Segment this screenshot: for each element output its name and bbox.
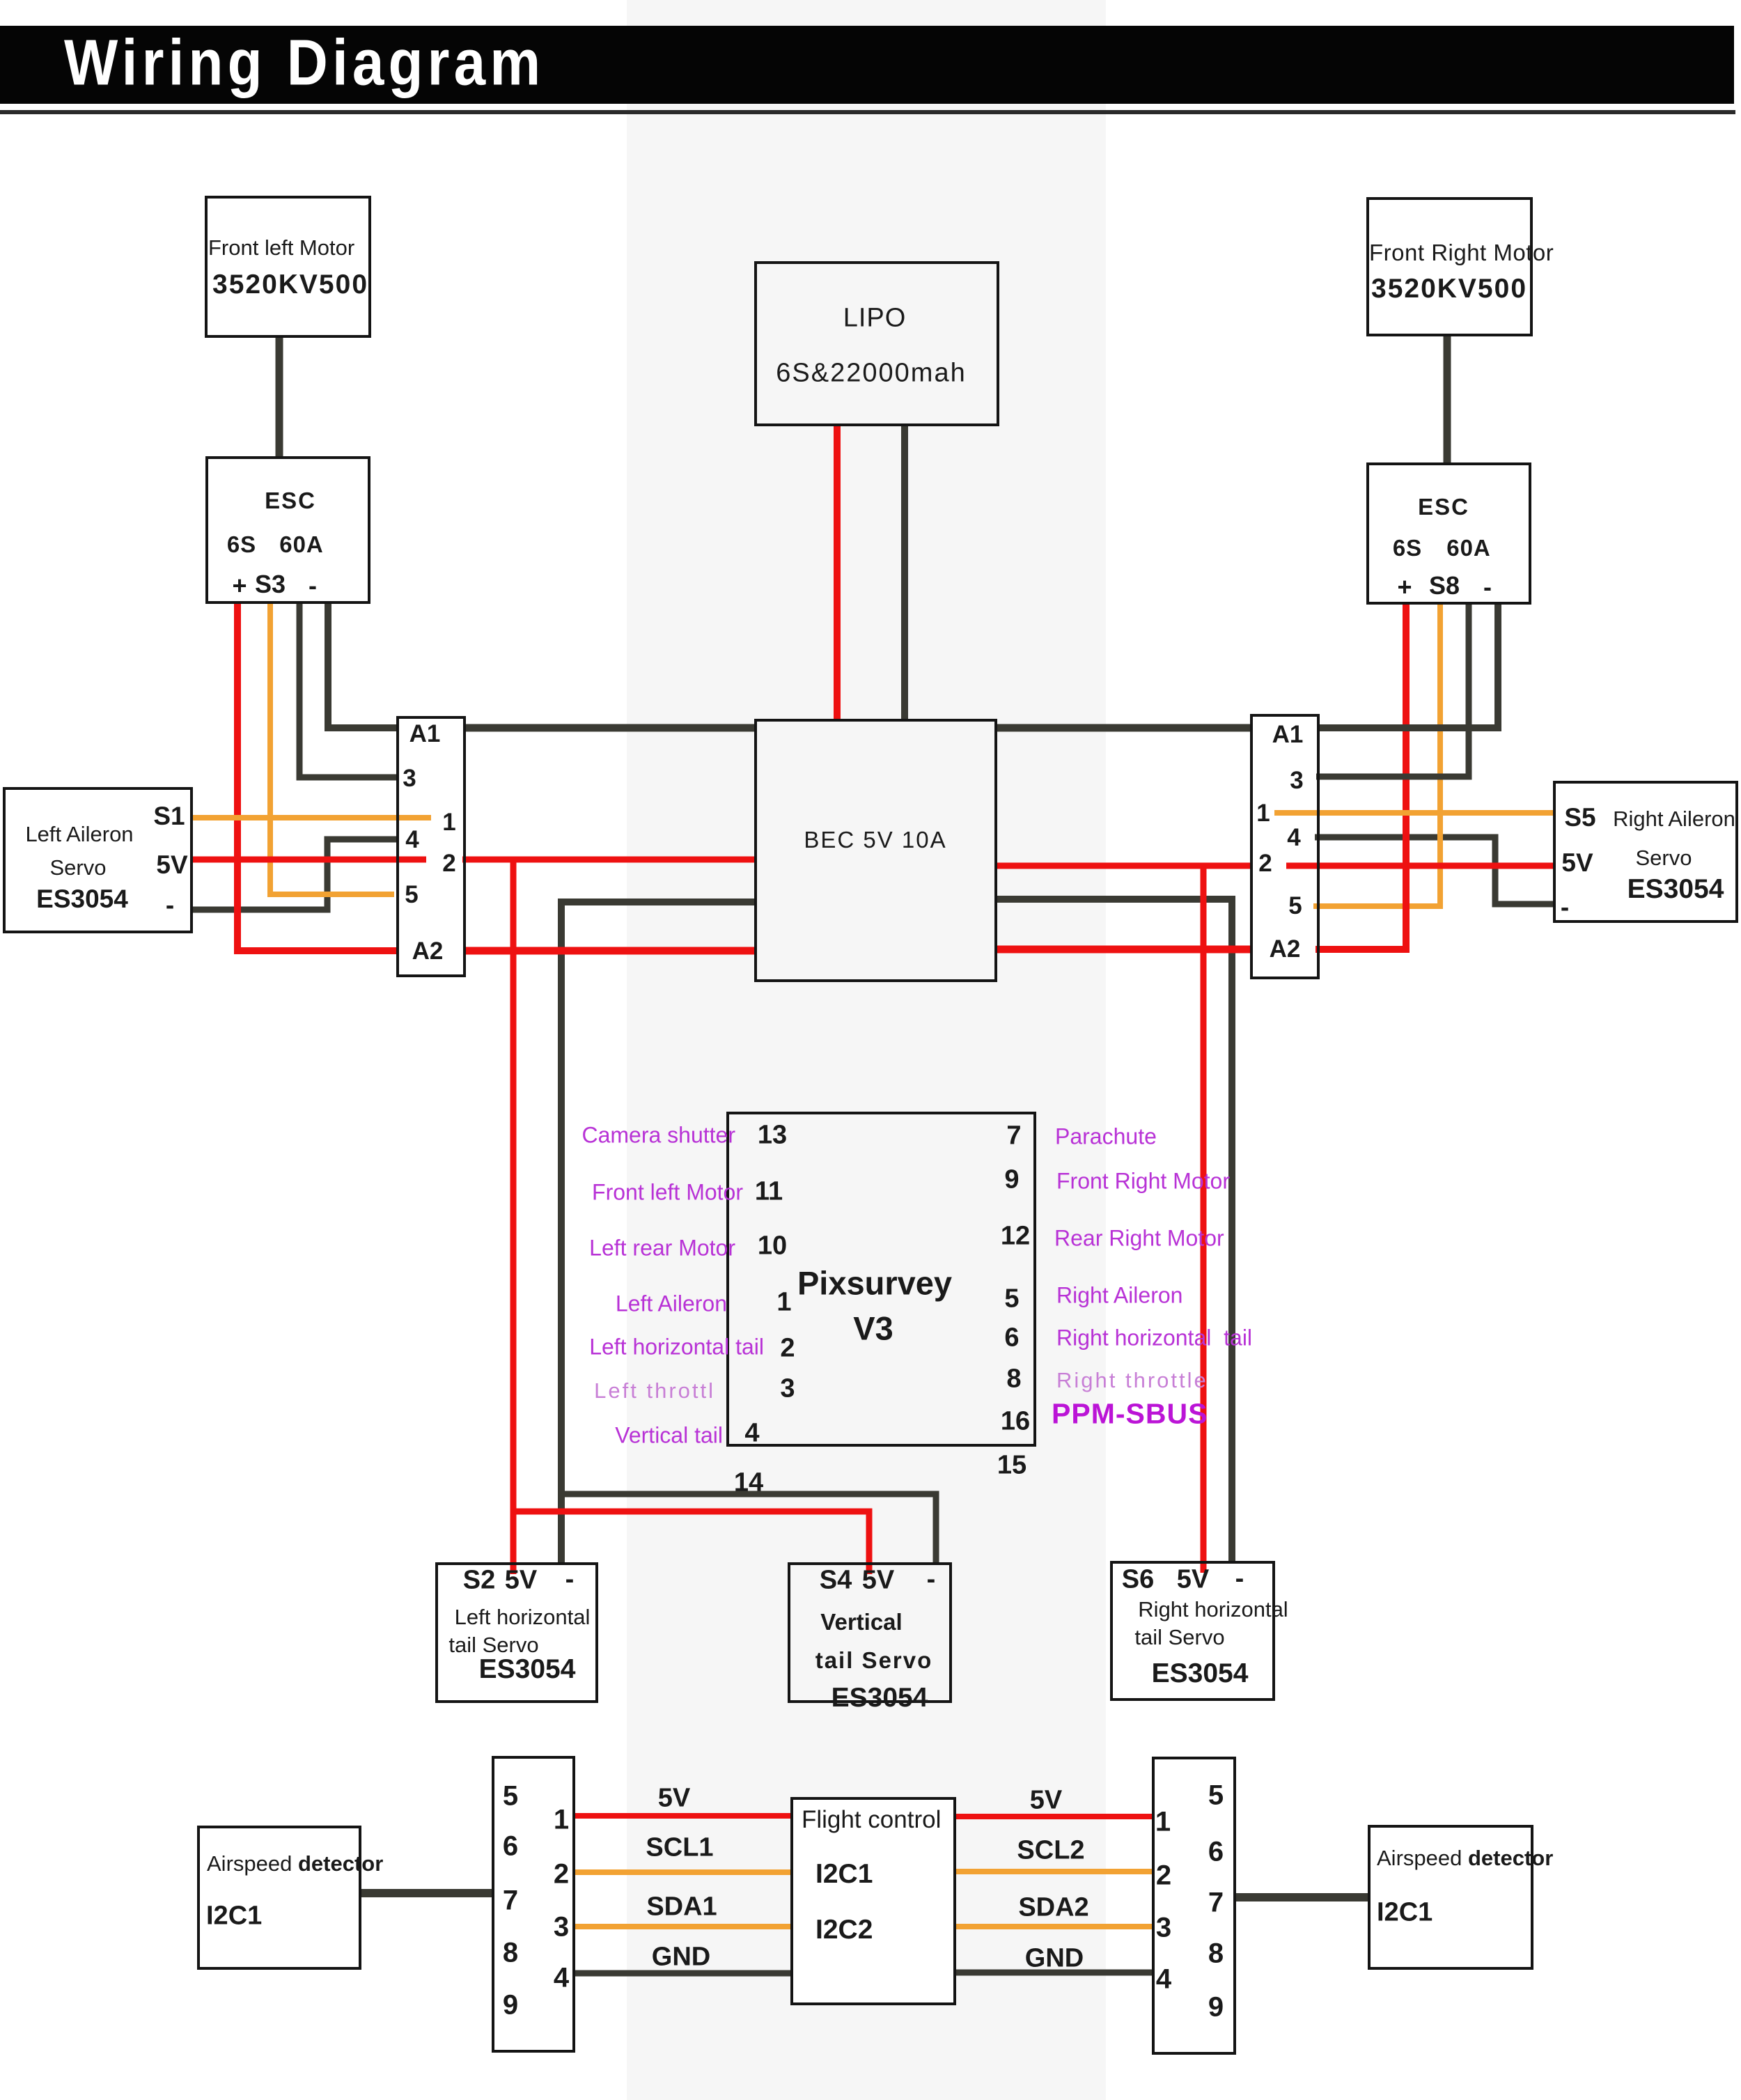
pin minus of ESC U1 [309, 571, 317, 600]
pin minus of servo SV2 [565, 1565, 575, 1595]
pin 1 of J3 [554, 1805, 569, 1836]
wire GND left [575, 1970, 790, 1977]
wire SDA2 [956, 1924, 1152, 1929]
wire servo-L S1 to pin1 [193, 815, 431, 820]
pin 4 of J1 [405, 826, 419, 854]
wire SCL2 [956, 1869, 1152, 1874]
pin 5V of servo SV5 [1561, 848, 1593, 878]
pin 5 of J1 [405, 881, 418, 909]
flight control U5 box [790, 1797, 956, 2005]
BEC U3 box [754, 719, 997, 982]
pin 1 of J2 [1256, 800, 1270, 827]
pin 5V of servo SV2 [505, 1566, 537, 1596]
pin A1 of J2 [1272, 721, 1304, 749]
wire ESC-L plus to A2 bus [237, 604, 754, 951]
wire pin2 to BEC red left [462, 857, 754, 863]
connector J3 bottom-left box [492, 1756, 575, 2053]
pin 4 of J2 [1287, 824, 1300, 852]
wire ESC-L minus to pin3 [299, 604, 398, 777]
pin 4 of J4 [1156, 1964, 1171, 1996]
wire A1 bus BEC to right-connector [997, 724, 1250, 732]
net label Left throttl [594, 1378, 715, 1403]
net label SDA1 [646, 1892, 717, 1922]
pin minus of ESC U2 [1483, 573, 1492, 602]
wire SDA1 [575, 1924, 790, 1929]
wire ESC-R plus to A2 bus [997, 605, 1406, 949]
pin 5 [1004, 1284, 1019, 1314]
wire 14 dark branch to S4 minus [561, 1494, 936, 1565]
pin 9 of J3 [503, 1990, 518, 2021]
motor M2 Front Right Motor box [1366, 197, 1533, 336]
connector J2 right box [1250, 714, 1320, 979]
sensor Airspeed detector right box [1368, 1825, 1533, 1970]
title bar [0, 26, 1734, 104]
pin 5V of servo SV1 [156, 850, 187, 880]
pin 4 of J3 [554, 1963, 569, 1994]
pin 16 [1001, 1407, 1030, 1437]
pin 2 of J1 [442, 850, 455, 878]
net label 5V left [658, 1784, 690, 1814]
pin 3 of J3 [554, 1912, 569, 1943]
net label Camera shutter [581, 1123, 735, 1149]
pin S5 of servo SV5 [1564, 803, 1595, 832]
servo SV2 S2 box [435, 1562, 598, 1703]
wire LIPO positive [834, 426, 841, 722]
pin A2 of J2 [1270, 935, 1301, 963]
wire LIPO negative [901, 426, 908, 722]
pin 1 [776, 1288, 791, 1318]
pin 8 of J3 [503, 1938, 518, 1969]
pin 12 [1001, 1222, 1030, 1252]
net label Right Aileron [1056, 1283, 1182, 1309]
net label 5V right [1030, 1786, 1062, 1816]
wire A1 bus left-connector to BEC [466, 724, 754, 732]
pin 1 of J1 [442, 809, 455, 837]
pin 9 [1004, 1165, 1019, 1195]
pin 11 [755, 1177, 783, 1207]
background band [627, 0, 1106, 2100]
wire SCL1 [575, 1869, 790, 1875]
pin A1 of J1 [409, 720, 441, 748]
battery LIPO box [754, 261, 999, 426]
pin 2 of J4 [1156, 1860, 1171, 1892]
connector J4 bottom-right box [1152, 1757, 1236, 2055]
net label Left rear Motor [589, 1236, 735, 1261]
pin 8 [1006, 1364, 1021, 1394]
pin 2 [780, 1334, 795, 1364]
net label Parachute [1055, 1124, 1157, 1150]
wire ESC-R S8 to pin5 [1313, 605, 1440, 906]
pin 6 of J4 [1208, 1837, 1224, 1868]
wire pin1 to servo-R S5 [1274, 810, 1553, 816]
pin 2 of J2 [1258, 850, 1272, 878]
net label Left Aileron [616, 1291, 727, 1317]
net label Right horizontal tail [1056, 1325, 1252, 1351]
wire red branch to S4 5V [513, 1511, 869, 1574]
net label Left horizontal tail [589, 1335, 764, 1360]
pin 13 [758, 1121, 787, 1151]
pin 9 of J4 [1208, 1992, 1224, 2023]
pin 5 of J2 [1288, 892, 1302, 920]
wire motor-left lead [276, 338, 283, 458]
pin 7 of J4 [1208, 1888, 1224, 1919]
pin 6 of J3 [503, 1831, 518, 1862]
wire pin2 to servo-R 5V [1286, 863, 1553, 869]
wire servo-R minus to pin4 [1315, 837, 1553, 904]
pin 5 of J4 [1208, 1780, 1224, 1812]
pin 7 of J3 [503, 1885, 518, 1917]
wire BEC to pin2 red right [997, 863, 1250, 869]
pin 15 [997, 1451, 1026, 1481]
pin 3 [780, 1374, 795, 1404]
net label SCL1 [646, 1833, 713, 1863]
ESC U1 left box [205, 456, 370, 604]
pin minus of servo SV1 [166, 891, 174, 920]
servo SV1 Left Aileron box [3, 787, 193, 933]
pin minus of servo SV4 [927, 1565, 936, 1595]
pin 2 of J3 [554, 1859, 569, 1890]
pin S8 of ESC U2 [1429, 571, 1460, 600]
pin S1 of servo SV1 [153, 802, 185, 831]
net label Vertical tail [615, 1423, 723, 1449]
ESC U2 right box [1366, 462, 1531, 605]
pin plus of ESC U2 [1397, 573, 1412, 602]
net label GND right [1025, 1944, 1084, 1974]
pin 7 [1006, 1121, 1021, 1151]
wire 5V left [575, 1813, 790, 1819]
flight controller U4 Pixsurvey box [726, 1112, 1036, 1447]
wire airspeed-right link [1236, 1893, 1368, 1901]
title underline [0, 110, 1735, 114]
pin 3 of J4 [1156, 1913, 1171, 1944]
pin S4 of servo SV4 [820, 1566, 852, 1596]
pin 4 [744, 1419, 759, 1449]
servo SV5 Right Aileron box [1553, 781, 1738, 923]
sensor Airspeed detector left box [197, 1826, 361, 1970]
wire motor-right lead [1444, 336, 1451, 462]
pin plus of ESC U1 [232, 571, 247, 600]
wire red drop right to S6 5V [1201, 866, 1207, 1573]
net label Front left Motor [592, 1180, 743, 1206]
pin minus of servo SV6 [1235, 1564, 1244, 1594]
motor M1 Front left Motor box [205, 196, 371, 338]
wire ESC-R minus to pin3 [1316, 605, 1469, 777]
wire 5V right [956, 1814, 1152, 1819]
pin S6 of servo SV6 [1122, 1565, 1154, 1595]
servo SV4 S4 box [788, 1562, 952, 1703]
wire servo-L 5V nub [193, 857, 426, 863]
pin S3 of ESC U1 [255, 570, 286, 599]
connector J1 left box [396, 716, 466, 977]
wire GND right [956, 1970, 1152, 1976]
net label Rear Right Motor [1054, 1226, 1224, 1252]
net label SDA2 [1018, 1893, 1088, 1923]
pin A2 of J1 [412, 938, 444, 965]
pin 1 of J4 [1155, 1807, 1171, 1838]
wire ESC-R minus to A1 bus [1320, 605, 1498, 728]
wire ESC-L S3 to pin5 [270, 604, 394, 894]
pin 8 of J4 [1208, 1938, 1224, 1970]
pin 5V of servo SV4 [862, 1566, 894, 1596]
net label Right throttle [1056, 1368, 1208, 1393]
wire red drop left to S2 5V [510, 860, 517, 1574]
wire airspeed-left link [361, 1889, 492, 1897]
wire servo-L minus to pin4 [193, 839, 398, 910]
pin minus of servo SV5 [1561, 893, 1569, 922]
pin 14 [734, 1468, 763, 1498]
servo SV6 S6 box [1110, 1561, 1275, 1701]
pin S2 of servo SV2 [463, 1566, 495, 1596]
pin 6 [1004, 1323, 1019, 1353]
net label Front Right Motor [1056, 1169, 1230, 1195]
pin 3 of J1 [403, 765, 416, 793]
pin 5 of J3 [503, 1781, 518, 1812]
pin 10 [758, 1231, 787, 1261]
net label GND left [652, 1943, 710, 1973]
net label PPM-SBUS [1052, 1398, 1208, 1431]
net label SCL2 [1017, 1836, 1084, 1866]
pin 3 of J2 [1290, 767, 1303, 795]
title text [64, 26, 545, 100]
wire ESC-L minus to A1 bus [328, 604, 396, 728]
wire BEC dark out left down to S2 minus [561, 902, 754, 1565]
pin 5V of servo SV6 [1177, 1565, 1209, 1595]
wire BEC dark out right down to S6 minus [997, 899, 1232, 1564]
